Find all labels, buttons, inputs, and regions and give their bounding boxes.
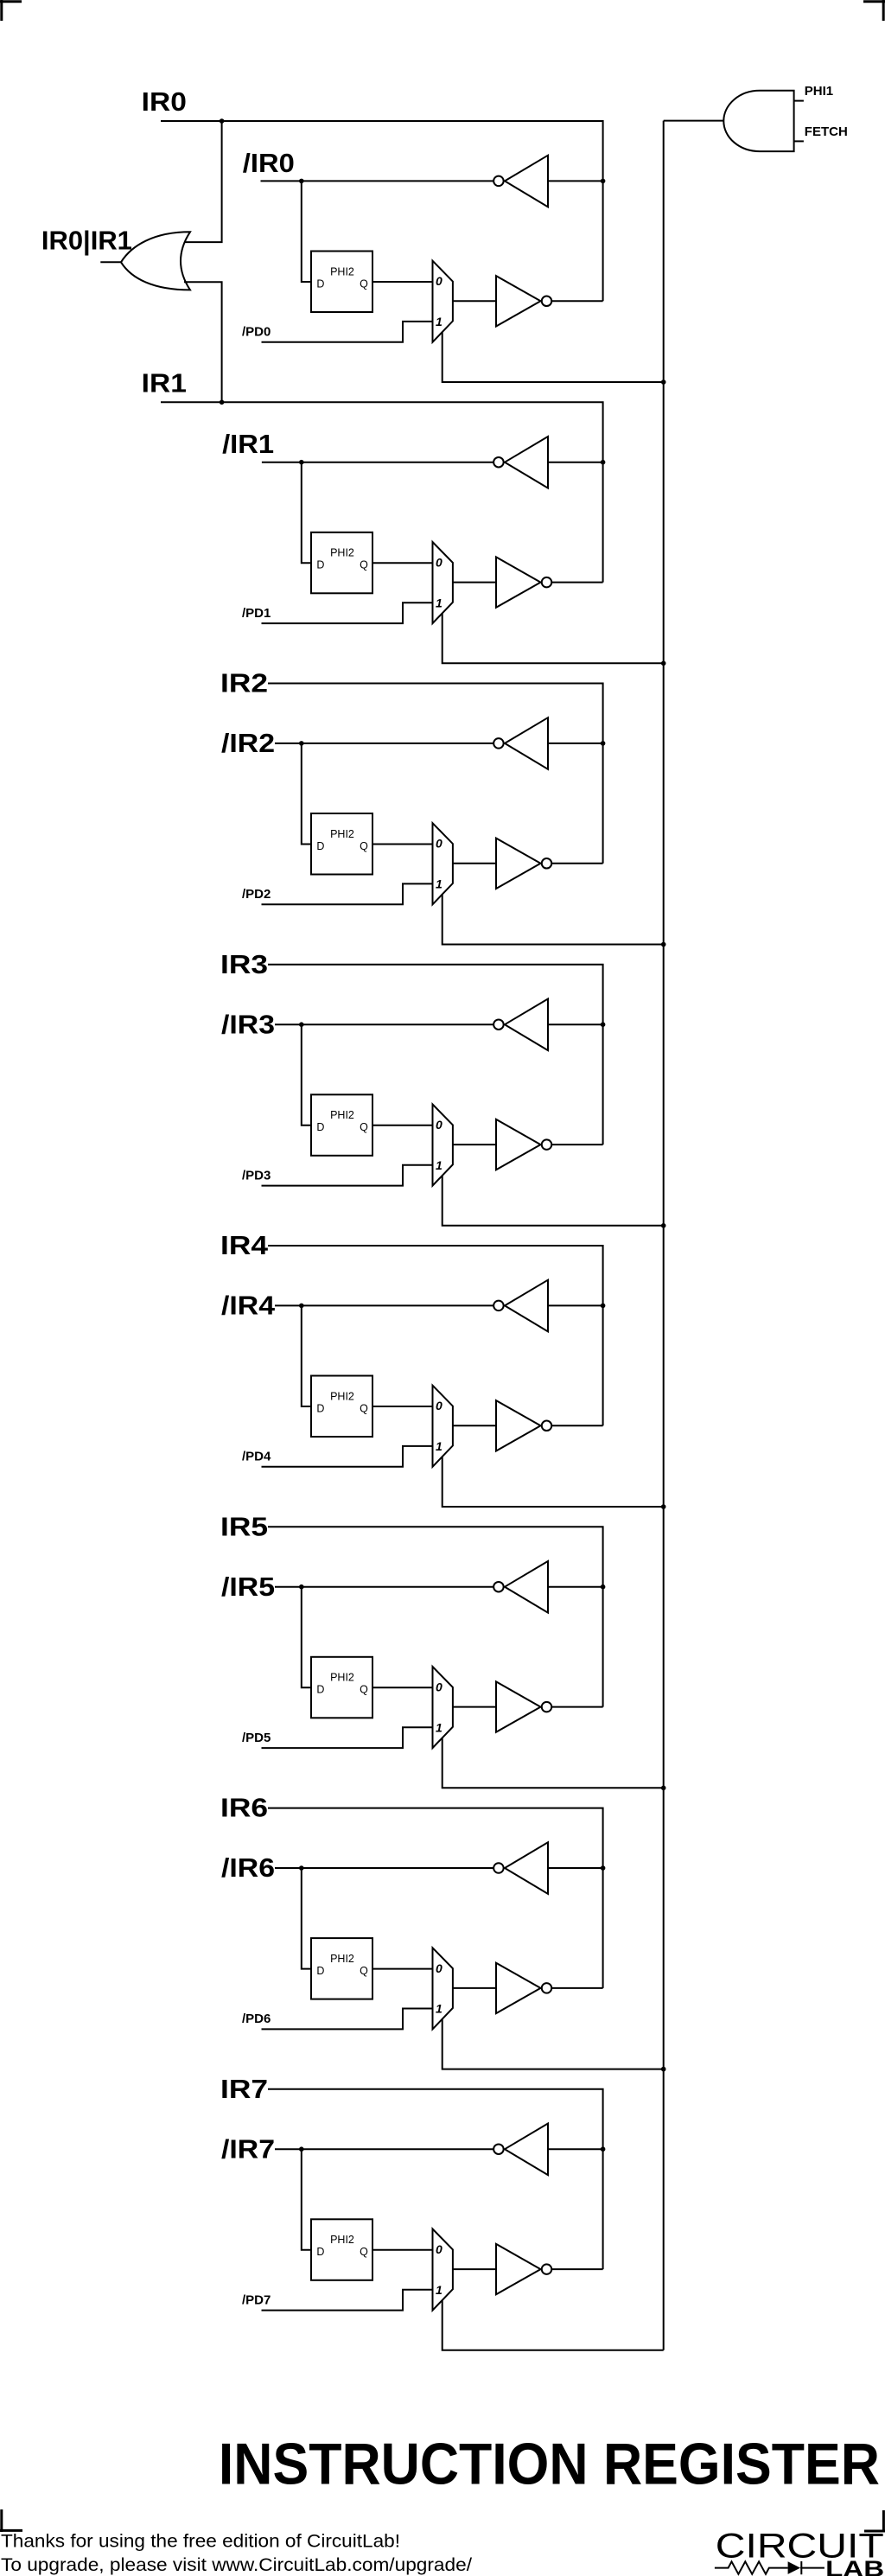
svg-text:/PD3: /PD3	[242, 1168, 271, 1183]
svg-text:PHI1: PHI1	[805, 84, 833, 99]
junction /IR2 tap to flip-flop D	[299, 741, 304, 746]
svg-text:1: 1	[436, 1439, 442, 1453]
wire /IR6 down to D input	[302, 1868, 311, 1969]
junction /IR5 tap to flip-flop D	[299, 1584, 304, 1590]
OR gate U10 (IR0 OR IR1), mirrored left-facing	[121, 232, 190, 290]
svg-text:/PD2: /PD2	[242, 887, 271, 902]
svg-text:0: 0	[436, 837, 442, 851]
junction feedback-inverter input tap (bit 6)	[601, 1865, 606, 1871]
wire mux output to output inverter (bit 0)	[453, 300, 496, 302]
svg-text:PHI2: PHI2	[330, 1390, 354, 1402]
junction feedback-inverter input tap (bit 3)	[601, 1022, 606, 1027]
wire mux select to clock bus (bit 4)	[442, 1457, 664, 1507]
mux M4 (2:1 multiplexer)	[433, 1386, 453, 1467]
inverter U2a (bit 1 feedback, left-facing with output bubble)	[493, 437, 548, 488]
wire /IR4 down to D input	[302, 1305, 311, 1406]
inverter U8b (bit 7 output, right-facing with bubble)	[496, 2244, 551, 2294]
svg-text:/IR3: /IR3	[221, 1009, 275, 1039]
wire mux output to output inverter (bit 1)	[453, 582, 496, 583]
inverter U8a (bit 7 feedback, left-facing with output bubble)	[493, 2124, 548, 2176]
wire clock bus vertical (AND output down to all bit slices)	[663, 121, 665, 2350]
inverter U2b (bit 1 output, right-facing with bubble)	[496, 557, 551, 607]
svg-text:0: 0	[436, 1118, 442, 1132]
svg-text:PHI2: PHI2	[330, 2234, 354, 2246]
mux M2 (2:1 multiplexer)	[433, 823, 453, 904]
svg-text:Q: Q	[360, 1965, 368, 1977]
junction clock bus tap (bit 5)	[661, 1786, 666, 1791]
inverter U5a (bit 4 feedback, left-facing with output bubble)	[493, 1280, 548, 1332]
wire mux select to clock bus (bit 1)	[442, 613, 664, 663]
svg-text:1: 1	[436, 2002, 442, 2016]
svg-text:/PD4: /PD4	[242, 1450, 271, 1464]
junction clock bus tap (bit 1)	[661, 661, 666, 666]
wire Q output to mux input 0 (bit 3)	[372, 1125, 433, 1126]
wire /IR2 down to D input	[302, 743, 311, 845]
CircuitLab logo diode symbol	[788, 2561, 801, 2574]
junction on IR1 wire at OR tap	[220, 400, 225, 405]
svg-text:/PD0: /PD0	[242, 325, 271, 340]
wire feedback inverter input (bit 2)	[548, 743, 603, 744]
svg-text:1: 1	[436, 1158, 442, 1172]
svg-text:/PD7: /PD7	[242, 2292, 271, 2307]
inverter U1a (bit 0 feedback, left-facing with output bubble)	[493, 156, 548, 207]
svg-text:IR1: IR1	[142, 368, 187, 399]
wire /PD4 to mux input 1	[262, 1446, 433, 1467]
wire /PD6 to mux input 1	[262, 2009, 433, 2030]
wire mux output to output inverter (bit 6)	[453, 1987, 496, 1989]
wire IR1 (input bus line)	[161, 402, 603, 582]
svg-text:IR3: IR3	[220, 949, 268, 979]
svg-text:/IR1: /IR1	[222, 429, 274, 459]
wire Q output to mux input 0 (bit 0)	[372, 281, 433, 283]
svg-text:0: 0	[436, 1680, 442, 1694]
mux M0 (2:1 multiplexer)	[433, 261, 453, 342]
junction clock bus tap (bit 6)	[661, 2067, 666, 2072]
wire /IR4	[275, 1304, 493, 1306]
wire output inverter to feedback vertical (bit 4)	[551, 1425, 602, 1426]
wire OR gate bottom input from IR1	[184, 282, 222, 402]
inverter U4b (bit 3 output, right-facing with bubble)	[496, 1119, 551, 1170]
wire IR5 (input bus line)	[268, 1527, 603, 1706]
D flip-flop U11 PHI2 (bit 0)	[311, 252, 372, 313]
wire feedback inverter input (bit 0)	[548, 180, 603, 182]
wire IR6 (input bus line)	[268, 1808, 603, 1988]
svg-text:PHI2: PHI2	[330, 1109, 354, 1121]
svg-text:Q: Q	[360, 840, 368, 852]
junction /IR1 tap to flip-flop D	[299, 460, 304, 465]
page corner mark bottom-left	[0, 2509, 22, 2532]
svg-text:/IR7: /IR7	[221, 2133, 275, 2164]
junction feedback-inverter input tap (bit 7)	[601, 2146, 606, 2152]
svg-text:0: 0	[436, 1399, 442, 1412]
mux M7 (2:1 multiplexer)	[433, 2229, 453, 2311]
junction feedback-inverter input tap (bit 1)	[601, 460, 606, 465]
wire mux select to clock bus (bit 5)	[442, 1738, 664, 1788]
svg-text:0: 0	[436, 1961, 442, 1975]
inverter U7a (bit 6 feedback, left-facing with output bubble)	[493, 1842, 548, 1894]
wire output inverter to feedback vertical (bit 0)	[551, 300, 602, 302]
wire /IR6	[275, 1867, 493, 1869]
svg-text:/PD5: /PD5	[242, 1731, 271, 1745]
wire IR7 (input bus line)	[268, 2089, 603, 2269]
wire Q output to mux input 0 (bit 5)	[372, 1687, 433, 1688]
wire output inverter to feedback vertical (bit 3)	[551, 1144, 602, 1145]
wire /IR7 down to D input	[302, 2149, 311, 2250]
svg-text:PHI2: PHI2	[330, 265, 354, 277]
svg-text:IR0|IR1: IR0|IR1	[41, 226, 132, 256]
svg-text:IR0: IR0	[142, 86, 187, 117]
junction clock bus tap (bit 2)	[661, 942, 666, 947]
svg-text:D: D	[316, 559, 324, 571]
wire IR4 (input bus line)	[268, 1246, 603, 1425]
svg-text:Q: Q	[360, 559, 368, 571]
svg-text:/PD1: /PD1	[242, 606, 271, 621]
wire /PD0 to mux input 1	[262, 322, 433, 342]
wire OR gate top input from IR0	[184, 121, 222, 242]
inverter U1b (bit 0 output, right-facing with bubble)	[496, 276, 551, 326]
D flip-flop U14 PHI2 (bit 3)	[311, 1094, 372, 1156]
svg-text:0: 0	[436, 556, 442, 570]
wire mux output to output inverter (bit 4)	[453, 1425, 496, 1426]
svg-text:1: 1	[436, 2283, 442, 2297]
wire mux select to clock bus (bit 7)	[442, 2300, 664, 2350]
wire /PD2 to mux input 1	[262, 883, 433, 904]
svg-text:0: 0	[436, 274, 442, 288]
svg-text:1: 1	[436, 596, 442, 609]
wire /IR3 down to D input	[302, 1024, 311, 1125]
wire mux select to clock bus (bit 2)	[442, 894, 664, 944]
wire output inverter to feedback vertical (bit 7)	[551, 2268, 602, 2270]
svg-text:IR6: IR6	[220, 1793, 268, 1823]
svg-text:D: D	[316, 1965, 324, 1977]
wire /IR2	[275, 743, 493, 744]
svg-text:PHI2: PHI2	[330, 828, 354, 840]
svg-text:PHI2: PHI2	[330, 1672, 354, 1684]
mux M6 (2:1 multiplexer)	[433, 1948, 453, 2029]
junction /IR3 tap to flip-flop D	[299, 1022, 304, 1027]
svg-text:IR4: IR4	[220, 1230, 269, 1260]
wire /IR7	[275, 2148, 493, 2150]
svg-text:Thanks for using the free edit: Thanks for using the free edition of Cir…	[1, 2532, 400, 2552]
wire feedback inverter input (bit 3)	[548, 1023, 603, 1025]
inverter U3a (bit 2 feedback, left-facing with output bubble)	[493, 717, 548, 769]
junction clock bus tap (bit 3)	[661, 1223, 666, 1228]
svg-text:Q: Q	[360, 1402, 368, 1414]
junction clock bus tap (bit 4)	[661, 1504, 666, 1509]
mux M5 (2:1 multiplexer)	[433, 1667, 453, 1748]
wire Q output to mux input 0 (bit 2)	[372, 844, 433, 845]
svg-text:Q: Q	[360, 277, 368, 290]
D flip-flop U16 PHI2 (bit 5)	[311, 1657, 372, 1718]
wire feedback inverter input (bit 5)	[548, 1586, 603, 1588]
wire /PD7 to mux input 1	[262, 2290, 433, 2311]
D flip-flop U18 PHI2 (bit 7)	[311, 2219, 372, 2280]
wire mux output to output inverter (bit 3)	[453, 1144, 496, 1145]
svg-text:Q: Q	[360, 1684, 368, 1696]
svg-text:LAB: LAB	[825, 2555, 884, 2576]
svg-text:D: D	[316, 840, 324, 852]
svg-text:INSTRUCTION REGISTER: INSTRUCTION REGISTER	[219, 2432, 880, 2497]
svg-text:/IR4: /IR4	[221, 1291, 276, 1321]
mux M3 (2:1 multiplexer)	[433, 1105, 453, 1186]
page corner mark top-right	[863, 0, 885, 21]
D flip-flop U13 PHI2 (bit 2)	[311, 813, 372, 875]
junction /IR0 tap to flip-flop D	[299, 179, 304, 184]
wire Q output to mux input 0 (bit 1)	[372, 562, 433, 564]
AND gate U9 (PHI1 AND FETCH), mirrored left-facing	[723, 91, 793, 151]
svg-text:0: 0	[436, 2242, 442, 2256]
wire Q output to mux input 0 (bit 4)	[372, 1406, 433, 1407]
wire IR0 (input bus line)	[161, 121, 603, 301]
wire /IR5 down to D input	[302, 1587, 311, 1688]
wire /IR3	[275, 1023, 493, 1025]
junction /IR7 tap to flip-flop D	[299, 2146, 304, 2152]
wire output inverter to feedback vertical (bit 6)	[551, 1987, 602, 1989]
junction /IR6 tap to flip-flop D	[299, 1865, 304, 1871]
mux M1 (2:1 multiplexer)	[433, 542, 453, 623]
D flip-flop U15 PHI2 (bit 4)	[311, 1376, 372, 1438]
svg-text:1: 1	[436, 877, 442, 891]
svg-text:D: D	[316, 1121, 324, 1133]
svg-text:/IR0: /IR0	[243, 148, 295, 178]
wire feedback inverter input (bit 4)	[548, 1304, 603, 1306]
svg-text:IR7: IR7	[220, 2074, 268, 2104]
svg-text:1: 1	[436, 315, 442, 328]
junction feedback-inverter input tap (bit 5)	[601, 1584, 606, 1590]
wire /IR5	[275, 1586, 493, 1588]
pin stub PHI1 (AND input A)	[794, 100, 804, 102]
wire output inverter to feedback vertical (bit 2)	[551, 863, 602, 864]
page corner mark top-left	[0, 0, 22, 21]
junction feedback-inverter input tap (bit 2)	[601, 741, 606, 746]
wire /IR1	[262, 462, 493, 463]
svg-text:/IR2: /IR2	[221, 728, 275, 758]
wire /PD5 to mux input 1	[262, 1727, 433, 1748]
svg-text:/IR6: /IR6	[221, 1852, 275, 1883]
CircuitLab logo resistor symbol	[715, 2561, 788, 2574]
svg-text:PHI2: PHI2	[330, 1953, 354, 1965]
wire mux select to clock bus (bit 6)	[442, 2018, 664, 2069]
wire feedback inverter input (bit 7)	[548, 2148, 603, 2150]
svg-text:IR2: IR2	[220, 668, 268, 698]
svg-text:To upgrade, please visit www.C: To upgrade, please visit www.CircuitLab.…	[1, 2555, 472, 2575]
wire Q output to mux input 0 (bit 6)	[372, 1968, 433, 1970]
wire Q output to mux input 0 (bit 7)	[372, 2249, 433, 2251]
wire IR3 (input bus line)	[268, 965, 603, 1145]
svg-text:D: D	[316, 277, 324, 290]
inverter U3b (bit 2 output, right-facing with bubble)	[496, 838, 551, 889]
D flip-flop U17 PHI2 (bit 6)	[311, 1938, 372, 1999]
wire AND gate output	[664, 120, 724, 122]
wire mux output to output inverter (bit 2)	[453, 863, 496, 864]
junction on IR0 wire at OR tap	[220, 118, 225, 124]
svg-text:Q: Q	[360, 2246, 368, 2258]
svg-text:D: D	[316, 1684, 324, 1696]
inverter U6a (bit 5 feedback, left-facing with output bubble)	[493, 1561, 548, 1613]
svg-text:FETCH: FETCH	[805, 124, 848, 139]
D flip-flop U12 PHI2 (bit 1)	[311, 532, 372, 594]
inverter U4a (bit 3 feedback, left-facing with output bubble)	[493, 999, 548, 1051]
wire output inverter to feedback vertical (bit 1)	[551, 582, 602, 583]
page corner mark bottom-right	[864, 2510, 885, 2532]
svg-text:D: D	[316, 1402, 324, 1414]
svg-text:/IR5: /IR5	[221, 1572, 275, 1602]
wire output inverter to feedback vertical (bit 5)	[551, 1706, 602, 1708]
svg-text:D: D	[316, 2246, 324, 2258]
pin stub FETCH (AND input B)	[794, 140, 804, 142]
svg-text:PHI2: PHI2	[330, 547, 354, 559]
wire mux select to clock bus (bit 3)	[442, 1176, 664, 1226]
svg-text:/PD6: /PD6	[242, 2012, 271, 2026]
wire /PD1 to mux input 1	[262, 603, 433, 623]
svg-text:Q: Q	[360, 1121, 368, 1133]
svg-text:IR5: IR5	[220, 1511, 268, 1541]
wire mux select to clock bus (bit 0)	[442, 332, 664, 382]
wire /IR1 down to D input	[302, 462, 311, 564]
wire OR gate output stub (net IR0|IR1)	[100, 261, 122, 263]
junction /IR4 tap to flip-flop D	[299, 1304, 304, 1309]
wire feedback inverter input (bit 1)	[548, 462, 603, 463]
junction feedback-inverter input tap (bit 4)	[601, 1304, 606, 1309]
inverter U6b (bit 5 output, right-facing with bubble)	[496, 1681, 551, 1731]
wire /IR0 down to D input	[302, 181, 311, 282]
wire /PD3 to mux input 1	[262, 1165, 433, 1186]
inverter U5b (bit 4 output, right-facing with bubble)	[496, 1400, 551, 1451]
wire /IR0	[261, 180, 494, 182]
wire mux output to output inverter (bit 7)	[453, 2268, 496, 2270]
junction clock bus tap (bit 0)	[661, 379, 666, 385]
wire mux output to output inverter (bit 5)	[453, 1706, 496, 1708]
svg-text:1: 1	[436, 1720, 442, 1734]
wire IR2 (input bus line)	[268, 684, 603, 864]
wire feedback inverter input (bit 6)	[548, 1867, 603, 1869]
inverter U7b (bit 6 output, right-facing with bubble)	[496, 1963, 551, 2013]
junction feedback-inverter input tap (bit 0)	[601, 179, 606, 184]
